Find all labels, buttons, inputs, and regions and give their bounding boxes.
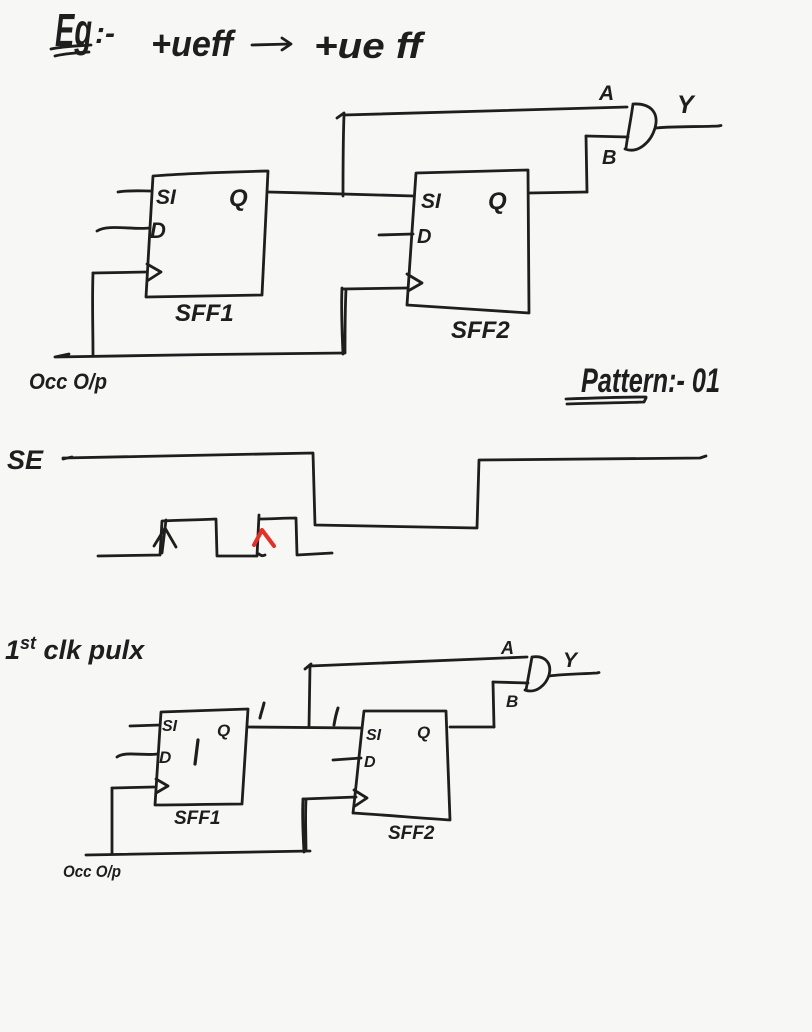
arrow bbox=[252, 38, 291, 50]
SE waveform bbox=[63, 453, 706, 528]
svg-text:Occ O/p: Occ O/p bbox=[29, 369, 107, 394]
clock pin triangle of SFF2 (circuit 2) bbox=[354, 790, 367, 806]
wire Y output of G2 bbox=[549, 673, 599, 677]
annotation "Eg:-" bbox=[51, 4, 115, 56]
clock pin triangle of SFF1 (circuit 2) bbox=[156, 779, 168, 793]
wire clock input of SFF1 bbox=[93, 272, 146, 273]
flip-flop SFF2 box (circuit 2) bbox=[353, 711, 450, 820]
wire Q1 to SI of SFF2 (circuit 2) bbox=[248, 727, 361, 728]
svg-text:D: D bbox=[417, 226, 431, 248]
wire clock vertical feed SFF2 doubled (circuit 2) bbox=[303, 799, 306, 852]
svg-text:SFF2: SFF2 bbox=[388, 823, 435, 844]
svg-text:Pattern:- 01: Pattern:- 01 bbox=[581, 362, 720, 400]
svg-text::-: :- bbox=[95, 17, 115, 50]
svg-text:Q: Q bbox=[488, 188, 507, 215]
AND gate G2 bbox=[525, 657, 550, 691]
wire D input of SFF2 (circuit 2) bbox=[333, 758, 361, 760]
red marker second clock edge bbox=[254, 530, 274, 546]
wire clock input of SFF2 bbox=[342, 288, 407, 289]
svg-text:D: D bbox=[150, 218, 166, 243]
wire clock vertical feed SFF1 bbox=[91, 273, 94, 356]
annotation Pattern:- 01 bbox=[566, 362, 720, 404]
flip-flop SFF1 box (circuit 2) bbox=[155, 709, 248, 805]
svg-text:A: A bbox=[500, 638, 514, 658]
svg-text:1st clk pulx: 1st clk pulx bbox=[5, 633, 145, 665]
wire node A horizontal to gate bbox=[344, 107, 627, 115]
svg-text:A: A bbox=[598, 82, 614, 105]
wire clock input of SFF1 (circuit 2) bbox=[112, 787, 154, 788]
svg-text:B: B bbox=[602, 147, 616, 169]
flip-flop SFF2 box bbox=[407, 170, 529, 313]
svg-text:Q: Q bbox=[229, 185, 248, 212]
wire junction vertical to node A (circuit 2) bbox=[305, 664, 311, 727]
clock pin triangle of SFF2 bbox=[407, 274, 422, 291]
svg-text:Q: Q bbox=[417, 723, 430, 742]
svg-text:SE: SE bbox=[7, 445, 44, 475]
wire SI input of SFF1 bbox=[118, 191, 152, 192]
value label 1 inside SFF1 (circuit 2) bbox=[195, 740, 198, 764]
annotation 1st clk pulx bbox=[5, 633, 145, 665]
svg-text:SFF1: SFF1 bbox=[175, 300, 234, 327]
clock pin triangle of SFF1 bbox=[147, 264, 161, 281]
svg-text:SI: SI bbox=[156, 186, 177, 209]
AND gate G1 bbox=[625, 104, 656, 150]
wire Q2 right bbox=[529, 192, 587, 193]
wire Y output of G1 bbox=[656, 126, 721, 129]
svg-text:D: D bbox=[159, 748, 171, 767]
svg-text:Occ O/p: Occ O/p bbox=[63, 862, 121, 881]
wire junction vertical to node A bbox=[337, 113, 344, 196]
wire node B horizontal to gate bbox=[586, 136, 628, 137]
wire scan-clock bottom bus circuit 2 bbox=[86, 851, 310, 855]
value label 1 on Q1 wire (circuit 2) bbox=[260, 703, 264, 718]
wire scan-clock bottom bus circuit 1 bbox=[55, 353, 345, 357]
wire clock vertical feed SFF2 (doubled stroke) bbox=[342, 288, 346, 354]
svg-text:B: B bbox=[506, 692, 518, 711]
wire D input of SFF1 bbox=[97, 227, 150, 231]
wire vertical up to node B bbox=[586, 136, 587, 192]
svg-text:SFF1: SFF1 bbox=[174, 808, 220, 829]
svg-text:+ueff: +ueff bbox=[151, 23, 236, 64]
wire clock input of SFF2 (circuit 2) bbox=[303, 797, 356, 799]
svg-text:SFF2: SFF2 bbox=[451, 317, 510, 344]
svg-text:Y: Y bbox=[563, 649, 579, 672]
wire Q2 right (circuit 2) bbox=[450, 726, 494, 729]
wire D input of SFF1 (circuit 2) bbox=[117, 754, 157, 757]
wire clock vertical feed SFF1 (circuit 2) bbox=[111, 788, 114, 854]
svg-text:D: D bbox=[364, 754, 376, 771]
svg-text:SI: SI bbox=[366, 727, 382, 744]
wire node A horizontal to gate (circuit 2) bbox=[310, 657, 527, 666]
wire vertical up to node B (circuit 2) bbox=[493, 682, 494, 727]
wire node B horizontal to gate (circuit 2) bbox=[493, 682, 528, 683]
clock waveform bbox=[98, 515, 332, 556]
svg-text:SI: SI bbox=[421, 190, 442, 213]
arrow marker first clock edge bbox=[154, 520, 176, 553]
wire D input of SFF2 bbox=[379, 234, 413, 235]
wire SI input of SFF1 (circuit 2) bbox=[130, 725, 160, 726]
wire Q1 to SI of SFF2 bbox=[268, 192, 414, 196]
svg-text:Q: Q bbox=[217, 721, 230, 740]
flip-flop SFF1 box bbox=[146, 171, 268, 297]
value label 1 at SI of SFF2 (circuit 2) bbox=[334, 708, 338, 725]
svg-text:+ue ff: +ue ff bbox=[314, 25, 425, 66]
svg-text:SI: SI bbox=[162, 718, 178, 735]
svg-text:Y: Y bbox=[677, 91, 696, 119]
